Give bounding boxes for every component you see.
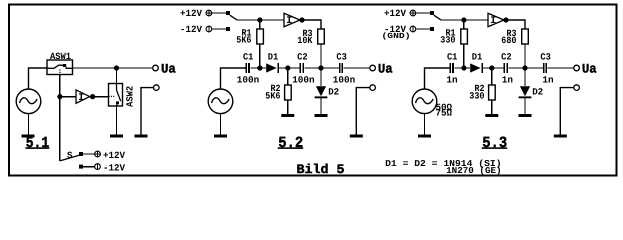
label -12V (5.1)	[103, 162, 125, 173]
svg-text:(GND): (GND)	[382, 32, 411, 41]
wire node down to ASW2	[116, 68, 118, 84]
svg-text:Bild 5: Bild 5	[297, 162, 345, 177]
node rail/R1 (5.3)	[461, 17, 466, 22]
svg-text:1n: 1n	[502, 74, 513, 85]
node buffer output (5.3)	[503, 17, 508, 22]
node rail/R1 (5.2)	[257, 17, 262, 22]
label Ua (5.2)	[378, 61, 393, 76]
label C1 (5.2)	[243, 51, 254, 62]
control wire from ASW1 down to switch S	[59, 75, 61, 161]
value C3 1n (5.3)	[542, 74, 553, 85]
label C3 (5.3)	[540, 51, 551, 62]
wire -12V terminal to contact (5.3)	[416, 28, 430, 30]
capacitor C1 (5.3)	[450, 63, 453, 73]
node C1/R1 (5.2)	[257, 65, 262, 70]
svg-text:5.2: 5.2	[278, 134, 303, 152]
value R1 5K6 (5.2)	[236, 34, 251, 45]
ground below G (5.2)	[214, 135, 227, 138]
value C2 100n (5.2)	[292, 74, 315, 85]
ground below R2 (5.3)	[485, 114, 498, 117]
svg-text:10K: 10K	[297, 35, 312, 46]
wire D1 to C2 (5.2)	[278, 67, 300, 69]
node D1/R2 (5.3)	[489, 65, 494, 70]
terminal -12V (5.2)	[206, 25, 212, 32]
wire R2 to ground (5.2)	[287, 100, 289, 114]
value C1 1n (5.3)	[446, 74, 457, 85]
output terminal Ua (5.3)	[574, 65, 580, 71]
svg-text:I: I	[490, 16, 496, 27]
wire R3 bottom to node (5.3)	[524, 44, 526, 68]
value R3 10K (5.2)	[297, 35, 312, 46]
terminal +12V (5.3)	[409, 9, 416, 16]
node buffer output (5.2)	[299, 17, 304, 22]
svg-text:I: I	[78, 93, 84, 104]
wire C1 to D1 (5.3)	[454, 67, 470, 69]
label R3 (5.3)	[507, 28, 517, 39]
svg-text:100n: 100n	[237, 74, 260, 85]
svg-text:-12V: -12V	[180, 24, 202, 35]
wire C1 to D1 (5.2)	[250, 67, 266, 69]
diode D1 (5.3)	[470, 63, 482, 73]
analog switch ASW1 box	[47, 60, 73, 75]
switch S contact -12V	[79, 165, 83, 169]
wire D2 top (5.2)	[320, 68, 322, 86]
node C2/R3/D2 (5.2)	[318, 65, 323, 70]
svg-text:1N270 (GE): 1N270 (GE)	[446, 166, 502, 176]
label R2 (5.3)	[475, 83, 485, 94]
wire reference terminal to ground (5.1)	[141, 88, 154, 135]
wire D2 to ground (5.2)	[320, 98, 322, 114]
wire R1 top (5.2)	[259, 20, 261, 29]
generator G (5.3)	[412, 89, 437, 114]
node inverter output (5.1)	[90, 94, 95, 99]
wire C2 to C3 (5.2)	[305, 67, 340, 69]
wire R3 bottom to node (5.2)	[320, 44, 322, 68]
wire ASW1 output to Ua	[73, 67, 153, 69]
label (GND) (5.3)	[382, 32, 411, 41]
svg-text:1n: 1n	[542, 74, 553, 85]
resistor R3 (5.3)	[522, 29, 529, 44]
svg-text:5.3: 5.3	[482, 134, 507, 152]
border frame	[9, 5, 617, 176]
output terminal Ua (5.2)	[370, 65, 376, 71]
capacitor C3 (5.3)	[544, 63, 547, 73]
svg-text:+12V: +12V	[384, 8, 406, 19]
wire reference terminal to ground (5.3)	[560, 88, 574, 135]
resistor R2 (5.2)	[285, 85, 292, 100]
supply rail (5.3)	[441, 19, 489, 21]
supply switch blade to rail (5.3)	[434, 15, 441, 20]
switch S blade	[60, 155, 79, 161]
svg-text:680: 680	[501, 35, 516, 46]
wire G to C1 (5.3)	[425, 68, 450, 89]
label -12V (5.2)	[180, 24, 202, 35]
supply switch contact -12V (5.3)	[430, 27, 434, 31]
wire node to inverter I1	[60, 96, 76, 98]
terminal -12V (5.3)	[410, 25, 416, 32]
supply switch contact +12V (5.2)	[226, 11, 230, 15]
node at ASW2 branch (5.1)	[114, 65, 119, 70]
generator G (5.2)	[208, 89, 233, 114]
label 5.1	[25, 134, 49, 152]
wire G1 bottom to ground	[28, 113, 30, 134]
ground below D2 (5.3)	[519, 114, 532, 117]
ASW1 switch contact	[47, 64, 73, 74]
ground below D2 (5.2)	[315, 114, 328, 117]
wire I1 output to ASW2 control	[90, 96, 109, 98]
title Bild 5	[297, 162, 345, 177]
wire buffer output to R3 (5.3)	[506, 20, 525, 29]
wire S to +12V terminal (5.1)	[83, 153, 95, 155]
value C2 1n (5.3)	[502, 74, 513, 85]
buffer I (5.2)	[284, 13, 300, 27]
capacitor C1 (5.2)	[246, 63, 249, 73]
value R2 5K6 (5.2)	[265, 91, 280, 102]
wire -12V terminal to contact (5.2)	[212, 28, 226, 30]
wire D1 to C2 (5.3)	[482, 67, 504, 69]
terminal -12V (5.1)	[95, 163, 101, 170]
generator G1 (5.1)	[16, 89, 41, 114]
wire +12V terminal to contact (5.3)	[416, 12, 430, 14]
diode D2 (5.3)	[519, 86, 532, 98]
supply switch contact -12V (5.2)	[226, 27, 230, 31]
wire +12V terminal to contact (5.2)	[212, 12, 226, 14]
label Ua (5.1)	[161, 61, 176, 76]
label D1 (5.2)	[268, 52, 279, 63]
supply rail (5.2)	[237, 19, 285, 21]
label +12V (5.1)	[103, 150, 125, 161]
svg-text:C2: C2	[501, 51, 512, 62]
ASW2 switch contact	[109, 84, 121, 107]
wire R2 to ground (5.3)	[491, 100, 493, 114]
buffer I1 (5.1)	[76, 90, 90, 104]
resistor R3 (5.2)	[318, 29, 325, 44]
output terminal Ua (5.1)	[153, 65, 159, 71]
svg-text:100n: 100n	[292, 74, 315, 85]
svg-text:+12V: +12V	[180, 8, 202, 19]
diode D2 (5.2)	[315, 86, 328, 98]
label R3 (5.2)	[303, 28, 313, 39]
label D1 (5.3)	[472, 52, 483, 63]
label S	[67, 150, 73, 161]
svg-text:ASW1: ASW1	[50, 51, 71, 62]
svg-text:75Ω: 75Ω	[436, 107, 453, 118]
capacitor C2 (5.2)	[300, 63, 303, 73]
svg-text:5.1: 5.1	[26, 134, 50, 152]
ground below G1	[22, 135, 35, 138]
note diodes line 1	[385, 159, 502, 169]
svg-text:C3: C3	[336, 51, 347, 62]
svg-text:5K6: 5K6	[236, 34, 251, 45]
value R2 330 (5.3)	[469, 91, 484, 102]
label C3 (5.2)	[336, 51, 347, 62]
wire C3 to Ua (5.3)	[548, 67, 574, 69]
svg-text:+12V: +12V	[103, 150, 125, 161]
wire R1 bottom to signal (5.2)	[259, 44, 261, 68]
label 75R (5.3)	[436, 107, 453, 118]
capacitor C2 (5.3)	[504, 63, 507, 73]
label R1 (5.3)	[446, 27, 456, 38]
label ASW2 (rotated)	[124, 86, 135, 107]
value R3 680 (5.3)	[501, 35, 516, 46]
svg-text:I: I	[286, 16, 292, 27]
terminal +12V (5.2)	[205, 9, 212, 16]
svg-text:-12V: -12V	[103, 162, 125, 173]
wire D2 top (5.3)	[524, 68, 526, 86]
svg-text:1n: 1n	[446, 74, 457, 85]
svg-text:5K6: 5K6	[265, 91, 280, 102]
ground below ASW2	[110, 135, 123, 138]
wire R1 top (5.3)	[463, 20, 465, 29]
label C2 (5.2)	[297, 51, 308, 62]
label R2 (5.2)	[271, 83, 281, 94]
svg-text:C2: C2	[297, 51, 308, 62]
node control/inverter (5.1)	[57, 94, 62, 99]
svg-text:Ua: Ua	[378, 61, 393, 76]
wire R2 top (5.3)	[491, 68, 493, 85]
capacitor C3 (5.2)	[340, 63, 343, 73]
note diodes line 2	[446, 166, 502, 176]
svg-text:ASW2: ASW2	[124, 86, 135, 107]
svg-text:C3: C3	[540, 51, 551, 62]
label R1 (5.2)	[242, 27, 252, 38]
ground below reference terminal (5.2)	[350, 135, 363, 138]
svg-text:100n: 100n	[333, 74, 356, 85]
svg-text:D1: D1	[472, 52, 483, 63]
reference terminal (5.2)	[370, 85, 376, 91]
buffer I (5.3)	[488, 13, 504, 27]
label 50R (5.3)	[436, 102, 453, 113]
node C2/R3/D2 (5.3)	[522, 65, 527, 70]
supply switch contact +12V (5.3)	[430, 11, 434, 15]
analog switch ASW2 box	[109, 84, 123, 107]
wire G to C1 (5.2)	[221, 68, 246, 89]
svg-text:D2: D2	[328, 86, 339, 97]
label +12V (5.3)	[384, 8, 406, 19]
value C3 100n (5.2)	[333, 74, 356, 85]
wire C2 to C3 (5.3)	[509, 67, 544, 69]
svg-text:Ua: Ua	[582, 61, 597, 76]
label Ua (5.3)	[582, 61, 597, 76]
switch S contact +12V	[79, 152, 83, 156]
svg-text:D2: D2	[532, 86, 543, 97]
resistor R2 (5.3)	[489, 85, 496, 100]
ground below reference terminal (5.1)	[135, 135, 148, 138]
reference terminal (5.1)	[154, 85, 160, 91]
value C1 100n (5.2)	[237, 74, 260, 85]
diode D1 (5.2)	[266, 63, 278, 73]
wire G to ground (5.2)	[220, 113, 222, 134]
wire D2 to ground (5.3)	[524, 98, 526, 114]
reference terminal (5.3)	[574, 85, 580, 91]
label -12V (5.3)	[384, 24, 406, 35]
svg-text:Ua: Ua	[161, 61, 176, 76]
wire reference terminal to ground (5.2)	[356, 88, 370, 135]
label C1 (5.3)	[447, 51, 458, 62]
resistor R1 (5.2)	[257, 29, 264, 44]
wire G to ground (5.3)	[424, 113, 426, 134]
wire C3 to Ua (5.2)	[344, 67, 370, 69]
resistor R1 (5.3)	[461, 29, 468, 44]
svg-text:330: 330	[440, 34, 455, 45]
svg-text:C1: C1	[243, 51, 254, 62]
label D2 (5.2)	[328, 86, 339, 97]
wire R2 top (5.2)	[287, 68, 289, 85]
label 5.3	[482, 134, 508, 152]
label C2 (5.3)	[501, 51, 512, 62]
svg-text:D1: D1	[268, 52, 279, 63]
wire ASW2 to ground	[116, 106, 118, 135]
svg-text:330: 330	[469, 91, 484, 102]
value R1 330 (5.3)	[440, 34, 455, 45]
ground below G (5.3)	[418, 135, 431, 138]
terminal +12V (5.1)	[94, 150, 101, 157]
node C1/R1 (5.3)	[461, 65, 466, 70]
node D1/R2 (5.2)	[285, 65, 290, 70]
label D2 (5.3)	[532, 86, 543, 97]
wire R1 bottom to signal (5.3)	[463, 44, 465, 68]
ground below R2 (5.2)	[281, 114, 294, 117]
ground below reference terminal (5.3)	[554, 135, 567, 138]
svg-text:C1: C1	[447, 51, 458, 62]
wire buffer output to R3 (5.2)	[302, 20, 321, 29]
label 5.2	[278, 134, 304, 152]
wire G1 top to ASW1 input	[29, 68, 48, 89]
svg-text:S: S	[67, 150, 73, 161]
label +12V (5.2)	[180, 8, 202, 19]
wire to -12V terminal (5.1)	[83, 166, 95, 168]
label ASW1	[50, 51, 71, 62]
supply switch blade to rail (5.2)	[230, 15, 237, 20]
